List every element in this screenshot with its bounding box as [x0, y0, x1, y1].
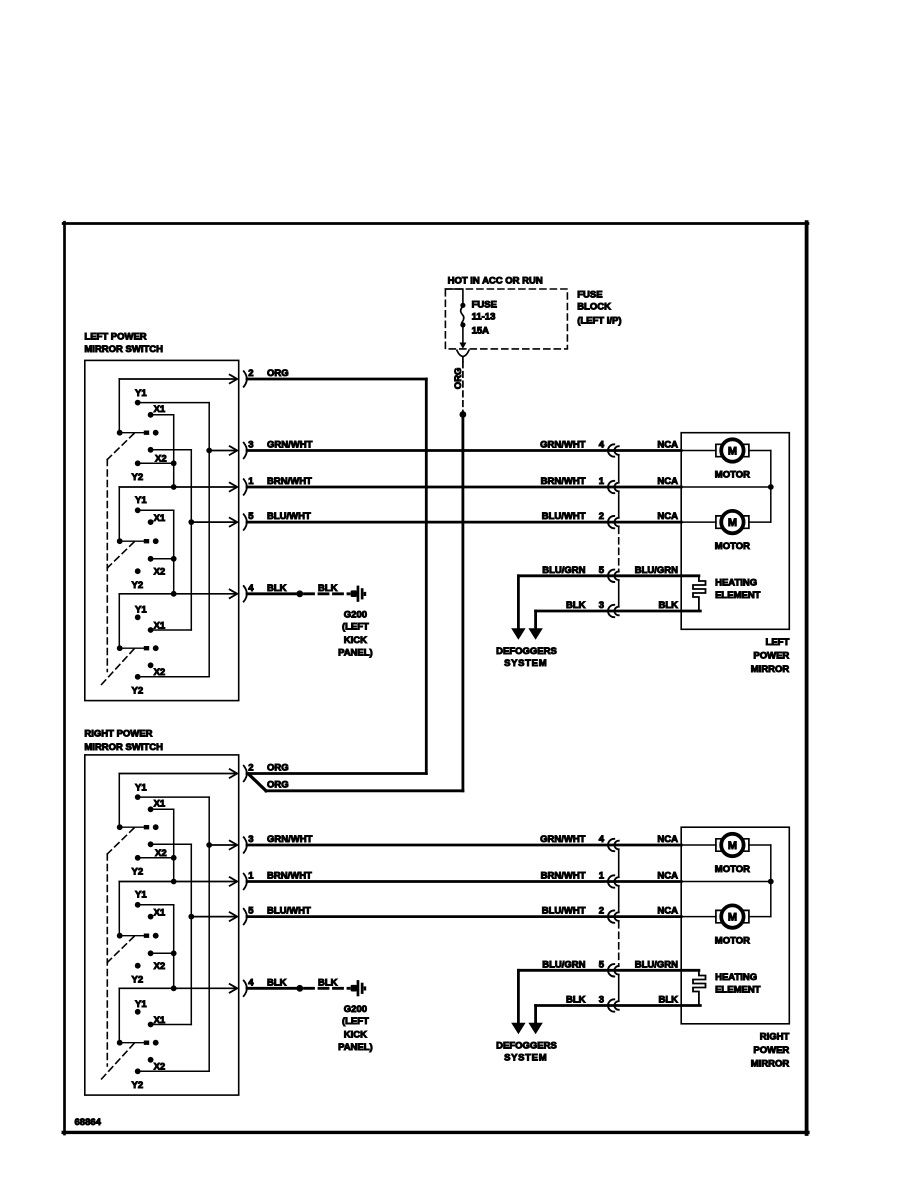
svg-text:FUSE: FUSE: [472, 299, 497, 310]
svg-text:HOT IN ACC OR RUN: HOT IN ACC OR RUN: [448, 275, 543, 286]
svg-text:POWER: POWER: [753, 651, 789, 662]
svg-text:11-13: 11-13: [472, 311, 496, 322]
svg-text:MIRROR: MIRROR: [751, 1059, 790, 1070]
svg-text:MIRROR SWITCH: MIRROR SWITCH: [84, 344, 163, 355]
svg-text:LEFT POWER: LEFT POWER: [84, 332, 146, 343]
svg-text:(LEFT I/P): (LEFT I/P): [577, 316, 621, 327]
svg-text:MIRROR: MIRROR: [751, 664, 790, 675]
svg-text:POWER: POWER: [753, 1045, 789, 1056]
svg-text:RIGHT POWER: RIGHT POWER: [84, 728, 152, 739]
svg-text:FUSE: FUSE: [577, 290, 602, 301]
svg-text:68864: 68864: [75, 1117, 102, 1128]
svg-text:MIRROR SWITCH: MIRROR SWITCH: [84, 742, 163, 753]
svg-text:LEFT: LEFT: [766, 637, 790, 648]
svg-text:ORG: ORG: [267, 779, 289, 790]
svg-text:15A: 15A: [472, 325, 490, 336]
svg-text:RIGHT: RIGHT: [760, 1032, 790, 1043]
svg-text:BLOCK: BLOCK: [577, 302, 611, 313]
